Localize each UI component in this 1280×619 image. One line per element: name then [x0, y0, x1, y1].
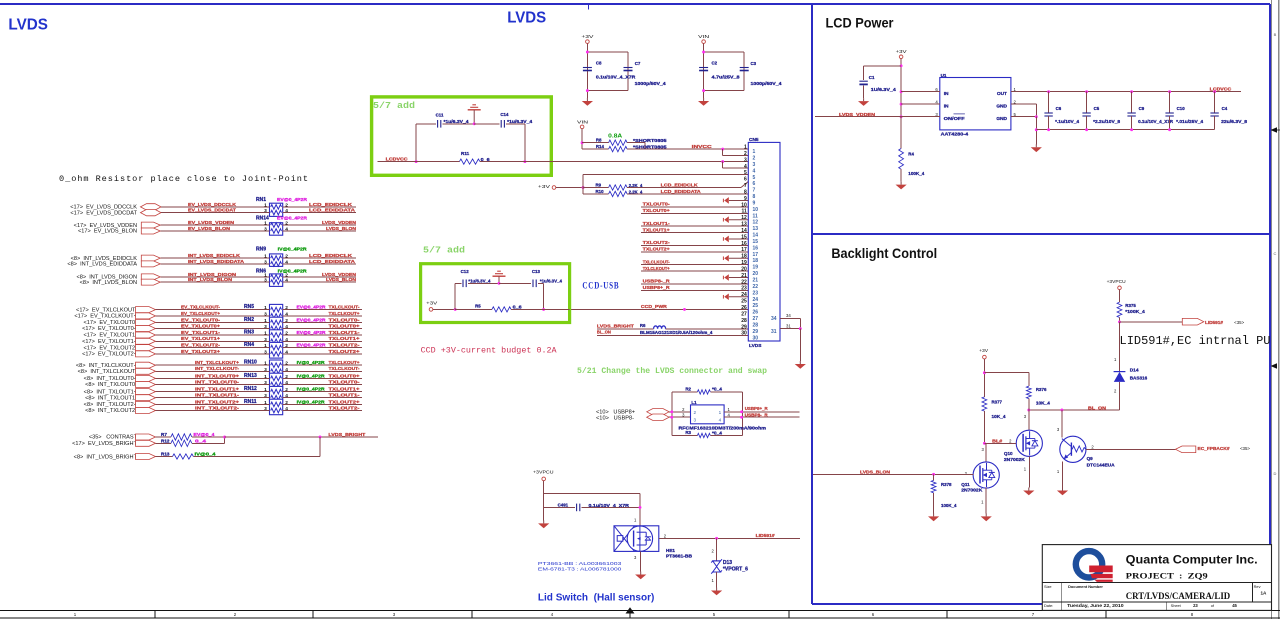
svg-text:EV_LVDS_DDCCLK: EV_LVDS_DDCCLK: [188, 202, 237, 207]
svg-text:<8> INT_TXLCLKOUT+: <8> INT_TXLCLKOUT+: [76, 363, 137, 369]
power +3V (U1): [896, 49, 907, 118]
svg-text:IN: IN: [944, 104, 949, 110]
svg-text:19: 19: [753, 265, 759, 271]
svg-text:<17> EV_TXLOUT2+: <17> EV_TXLOUT2+: [82, 352, 137, 358]
ground (Q10): [1023, 488, 1034, 496]
svg-text:2: 2: [694, 410, 697, 415]
svg-text:R10: R10: [596, 189, 605, 194]
power +3V (C8 group): [581, 34, 593, 98]
svg-text:EM-6781-T3 : AL006781000: EM-6781-T3 : AL006781000: [538, 566, 622, 572]
CN5 external pin numbers: [741, 145, 747, 337]
svg-text:+3V: +3V: [581, 34, 593, 39]
svg-text:BL#: BL#: [992, 438, 1003, 443]
wire to CN5 pin 5: [583, 174, 748, 176]
svg-text:+3VPCU: +3VPCU: [1107, 279, 1126, 284]
resistor R14: [582, 144, 667, 152]
annotation 5/7 add (top): [373, 100, 415, 111]
svg-text:*0_4: *0_4: [712, 430, 723, 435]
net LCDVCC rail to CN5: [377, 156, 748, 161]
svg-text:LCD_EDIDDATA: LCD_EDIDDATA: [309, 208, 356, 213]
wire EV_LVDS_DDCDAT to LCD_EDIDDATA: [70, 208, 356, 217]
svg-text:20: 20: [741, 266, 747, 272]
svg-text:23: 23: [1193, 603, 1198, 608]
svg-text:2: 2: [285, 331, 288, 337]
svg-text:100K_4: 100K_4: [908, 171, 925, 176]
ground (C1): [858, 98, 869, 106]
ground (D13): [711, 588, 722, 596]
svg-text:3: 3: [264, 393, 267, 399]
svg-text:LVDS_BRIGHT: LVDS_BRIGHT: [597, 323, 634, 328]
CN5 pin 31 wire to ground: [780, 324, 802, 361]
ground (green box 1): [468, 105, 481, 125]
svg-text:2: 2: [285, 387, 288, 393]
svg-text:<8> INT_LVDS_BRIGHT: <8> INT_LVDS_BRIGHT: [74, 454, 138, 460]
svg-text:RN1: RN1: [256, 197, 266, 203]
svg-text:20: 20: [753, 271, 759, 277]
svg-text:CCD_PWR: CCD_PWR: [641, 304, 668, 309]
annotation 5/7 add (CCD): [423, 245, 465, 256]
net LVDS_VDDEN: [815, 112, 940, 117]
svg-text:IV@0_4P2R: IV@0_4P2R: [297, 387, 326, 392]
svg-text:<17> EV_TXLOUT0+: <17> EV_TXLOUT0+: [82, 326, 137, 332]
title LCD Power: [826, 15, 894, 31]
ground (Q11): [981, 513, 992, 521]
net USBP8+_R: [724, 406, 800, 413]
title block text: [1044, 553, 1267, 609]
svg-text:<17> EV_LVDS_DDCDAT: <17> EV_LVDS_DDCDAT: [70, 210, 137, 216]
svg-text:3: 3: [264, 208, 267, 214]
svg-text:<8> INT_TXLOUT2-: <8> INT_TXLOUT2-: [85, 408, 137, 414]
svg-text:R5: R5: [475, 304, 481, 309]
svg-text:1: 1: [264, 400, 267, 406]
svg-text:INT_TXLOUT0-: INT_TXLOUT0-: [195, 379, 240, 384]
svg-text:EV_TXLCLKOUT-: EV_TXLCLKOUT-: [181, 305, 220, 310]
svg-text:TXLOUT0+: TXLOUT0+: [643, 208, 670, 213]
capacitor C491: [544, 503, 642, 512]
net LID591# output arrow: [1120, 318, 1245, 325]
svg-text:BL_ON: BL_ON: [1088, 405, 1107, 410]
svg-text:VIN: VIN: [577, 120, 588, 125]
svg-text:<8> INT_TXLOUT1+: <8> INT_TXLOUT1+: [84, 389, 137, 395]
svg-text:7: 7: [753, 188, 756, 194]
svg-text:TXLOUT0+: TXLOUT0+: [329, 373, 360, 378]
shield symbol at CN5 pin 12: [723, 216, 748, 223]
svg-text:TXLOUT1-: TXLOUT1-: [643, 221, 671, 226]
svg-text:EV@0_4P2R: EV@0_4P2R: [297, 330, 327, 335]
svg-text:C7: C7: [635, 61, 641, 66]
transistor Q9 DTC144EUA: [1057, 410, 1116, 488]
svg-text:18: 18: [753, 258, 759, 264]
svg-text:USBP8-_R: USBP8-_R: [745, 412, 769, 417]
right blue border of section boxes: [1269, 4, 1271, 604]
svg-text:TXLOUT0-: TXLOUT0-: [329, 379, 361, 384]
svg-text:6: 6: [744, 177, 747, 183]
svg-text:<17> EV_TXLOUT1+: <17> EV_TXLOUT1+: [82, 339, 137, 345]
svg-text:PT3661-BB : AL003661003: PT3661-BB : AL003661003: [538, 561, 622, 567]
ground (C491): [538, 520, 549, 528]
svg-text:27: 27: [741, 311, 747, 317]
svg-text:LVDS_VDDEN: LVDS_VDDEN: [322, 220, 357, 225]
svg-text:5: 5: [753, 175, 756, 181]
resistor R10: [583, 189, 643, 197]
svg-text:TXLOUT2+: TXLOUT2+: [643, 247, 670, 252]
svg-text:+3V: +3V: [426, 300, 437, 305]
svg-text:Date:: Date:: [1044, 603, 1053, 608]
svg-text:EV@0_4P2R: EV@0_4P2R: [297, 317, 327, 322]
wire C11 branch down: [415, 124, 418, 163]
svg-text:7: 7: [744, 183, 747, 189]
svg-text:EV_TXLCLKOUT+: EV_TXLCLKOUT+: [181, 311, 220, 316]
svg-text:R8: R8: [596, 137, 602, 142]
svg-text:Q10: Q10: [1004, 451, 1013, 456]
svg-text:22: 22: [741, 279, 747, 285]
svg-text:Document Number: Document Number: [1068, 584, 1103, 589]
capacitor C11: [416, 112, 474, 127]
net INVCC to CN5 pin 1: [627, 144, 748, 156]
svg-text:C9: C9: [1139, 106, 1145, 111]
net TXLCLKOUT+ to CN5 pin 20: [641, 266, 748, 271]
resistor R375: [1117, 302, 1145, 323]
svg-text:LVDS: LVDS: [8, 16, 48, 33]
svg-text:*.1u/10V_4: *.1u/10V_4: [1055, 119, 1080, 124]
svg-text:Lid Switch (Hall sensor): Lid Switch (Hall sensor): [538, 592, 655, 603]
svg-text:IV@0_4P2R: IV@0_4P2R: [297, 399, 326, 404]
svg-text:ON/OFF: ON/OFF: [944, 116, 965, 122]
power +3V (backlight): [979, 348, 1029, 397]
svg-text:Backlight Control: Backlight Control: [831, 245, 937, 261]
U1 GND pins to ground: [1011, 99, 1038, 144]
ground (R378): [928, 513, 939, 521]
svg-text:C3: C3: [751, 61, 757, 66]
ground (CCD box): [493, 271, 506, 285]
svg-text:4.7u/25V_8: 4.7u/25V_8: [712, 74, 741, 79]
svg-text:EV@0_4P2R: EV@0_4P2R: [277, 197, 308, 202]
svg-text:BLM15AG121SD1/0.5A/120ohm_4: BLM15AG121SD1/0.5A/120ohm_4: [640, 330, 713, 335]
wire EV_TXLOUT2+ to TXLOUT2+: [82, 349, 362, 358]
svg-text:16: 16: [753, 245, 759, 251]
vertical blue section divider: [811, 4, 813, 604]
annotation 0.8A: [608, 134, 623, 140]
svg-text:LID591#,EC intrnal PU: LID591#,EC intrnal PU: [1120, 335, 1271, 348]
svg-text:LID591#: LID591#: [1205, 320, 1223, 325]
svg-text:4: 4: [285, 311, 288, 317]
title Backlight Control: [831, 245, 937, 261]
svg-text:R375: R375: [1125, 303, 1136, 308]
bottom border scale band: [0, 607, 1280, 618]
svg-text:R13: R13: [161, 451, 170, 456]
resistor network RN2: [244, 317, 283, 333]
svg-text:24: 24: [741, 292, 747, 298]
svg-text:<8> INT_LVDS_EDIDDATA: <8> INT_LVDS_EDIDDATA: [67, 262, 137, 268]
svg-text:21: 21: [741, 273, 747, 279]
svg-text:INT_TXLOUT1+: INT_TXLOUT1+: [195, 387, 239, 392]
svg-text:3: 3: [264, 380, 267, 386]
net USBP8-_R: [724, 412, 800, 418]
svg-text:5/7 add: 5/7 add: [373, 100, 415, 111]
ground (U1): [1031, 144, 1042, 152]
net EC_FPBACK# output: [1086, 444, 1250, 452]
svg-text:CCD +3V-current budget 0.2A: CCD +3V-current budget 0.2A: [421, 345, 558, 355]
svg-text:*100K_4: *100K_4: [1125, 309, 1145, 314]
svg-text:IV@0_4P2R: IV@0_4P2R: [297, 360, 326, 365]
svg-text:Q9: Q9: [1087, 456, 1094, 461]
svg-text:30: 30: [741, 331, 747, 337]
node LVDS_BRIGHT: [223, 432, 378, 439]
svg-text:Size: Size: [1044, 584, 1052, 589]
capacitor C12: [454, 269, 499, 311]
resistor network RN10: [244, 360, 283, 376]
svg-text:3: 3: [753, 162, 756, 168]
svg-text:3: 3: [264, 259, 267, 265]
svg-text:4: 4: [285, 393, 288, 399]
net USBP8+_R to CN5 pin 23: [641, 285, 748, 290]
change-note green box (LCDVCC filter): [372, 97, 552, 175]
shield symbol at CN5 pin 21: [723, 274, 748, 281]
svg-text:+3V: +3V: [896, 49, 907, 54]
resistor network RN6: [256, 268, 307, 286]
svg-text:34: 34: [771, 316, 777, 322]
svg-text:LCD_EDIDDATA: LCD_EDIDDATA: [309, 259, 356, 264]
net TXLOUT2- to CN5 pin 16: [641, 240, 748, 245]
resistor network RN13: [244, 373, 283, 389]
note CCD current budget: [421, 345, 558, 355]
wire INT_TXLOUT2+ to TXLOUT2+: [84, 399, 362, 408]
resistor network RN14: [256, 215, 308, 235]
svg-text:<17> EV_TXLOUT0-: <17> EV_TXLOUT0-: [84, 320, 138, 326]
svg-text:PROJECT : ZQ9: PROJECT : ZQ9: [1126, 571, 1209, 581]
connector CN5 (LVDS): [748, 137, 780, 349]
sheet top border line: [0, 4, 1270, 10]
svg-text:29: 29: [741, 324, 747, 330]
svg-text:INT_TXLOUT1-: INT_TXLOUT1-: [195, 393, 240, 398]
svg-text:28: 28: [753, 322, 759, 328]
svg-text:3: 3: [264, 227, 267, 233]
svg-text:15: 15: [753, 239, 759, 245]
wire INT_LVDS_EDIDDATA to LCD_EDIDDATA: [67, 259, 356, 268]
svg-text:4: 4: [285, 367, 288, 373]
svg-text:INT_LVDS_EDIDDATA: INT_LVDS_EDIDDATA: [188, 259, 245, 264]
svg-text:INVCC: INVCC: [692, 144, 713, 149]
regulator U1 AAT4280-4: [940, 73, 1011, 136]
svg-text:R14: R14: [596, 144, 605, 149]
svg-text:4: 4: [285, 278, 288, 284]
node BL#: [983, 438, 1012, 444]
svg-text:0_4: 0_4: [195, 438, 207, 443]
svg-text:2N7002K: 2N7002K: [1004, 457, 1026, 462]
svg-text:<8> INT_TXLOUT0-: <8> INT_TXLOUT0-: [85, 382, 137, 388]
svg-text:2: 2: [285, 202, 288, 208]
svg-text:INT_LVDS_EDIDCLK: INT_LVDS_EDIDCLK: [188, 253, 241, 258]
svg-text:13: 13: [753, 226, 759, 232]
svg-text:BAS316: BAS316: [1130, 376, 1148, 381]
svg-text:R378: R378: [941, 482, 952, 487]
svg-text:LCD_EDIDCLK: LCD_EDIDCLK: [661, 183, 699, 188]
svg-text:USBP8-_R: USBP8-_R: [643, 279, 671, 284]
resistor R376: [1026, 373, 1050, 410]
svg-text:+3V: +3V: [979, 348, 988, 353]
svg-text:C13: C13: [532, 269, 541, 274]
svg-text:INT_TXLCLKOUT-: INT_TXLCLKOUT-: [195, 366, 240, 371]
svg-text:5: 5: [744, 170, 747, 176]
svg-text:2: 2: [285, 305, 288, 311]
svg-text:R6: R6: [640, 323, 646, 328]
ground (C8 group): [582, 98, 593, 106]
resistor R4: [899, 117, 925, 182]
svg-text:15: 15: [741, 234, 747, 240]
note PT3661-BB part numbers: [538, 561, 622, 573]
power +3V (CCD): [426, 300, 455, 311]
svg-text:INT_LVDS_BLON: INT_LVDS_BLON: [188, 277, 233, 282]
svg-text:1: 1: [744, 145, 747, 151]
svg-text:LCD_EDIDDATA: LCD_EDIDDATA: [661, 189, 702, 194]
wire EV_TXLOUT1+ to TXLOUT1+: [82, 336, 362, 345]
svg-text:31: 31: [771, 329, 777, 335]
net LCD_EDIDDATA to CN5: [627, 189, 748, 194]
svg-text:CCD-USB: CCD-USB: [582, 280, 619, 290]
wire EV_LVDS_DDCCLK to LCD_EDIDCLK: [70, 202, 356, 211]
svg-text:<17> EV_TXLCLKOUT-: <17> EV_TXLCLKOUT-: [76, 307, 137, 313]
svg-text:INT_TXLOUT0+: INT_TXLOUT0+: [195, 373, 239, 378]
svg-text:<10> USBP8-: <10> USBP8-: [596, 416, 634, 422]
svg-text:10: 10: [741, 202, 747, 208]
zener D13: [711, 538, 748, 587]
svg-text:26: 26: [753, 310, 759, 316]
svg-text:EV_TXLOUT2+: EV_TXLOUT2+: [181, 349, 220, 354]
svg-text:TXLCLKOUT+: TXLCLKOUT+: [643, 266, 670, 271]
svg-text:<35> CONTRAST: <35> CONTRAST: [89, 435, 138, 441]
HE1 pin 3 to ground: [634, 551, 641, 571]
svg-text:2: 2: [285, 272, 288, 278]
hall sensor HE1: [614, 518, 692, 559]
resistor R5: [455, 304, 569, 312]
net TXLOUT0- to CN5 pin 10: [641, 202, 748, 207]
svg-text:17: 17: [741, 247, 747, 253]
svg-text:25: 25: [753, 303, 759, 309]
svg-text:2: 2: [285, 254, 288, 260]
svg-text:1: 1: [264, 221, 267, 227]
power +3VPCU (hall): [533, 469, 554, 520]
net TXLOUT0+ to CN5 pin 11: [641, 208, 748, 213]
svg-text:EV_TXLOUT2-: EV_TXLOUT2-: [181, 343, 221, 348]
svg-text:14: 14: [741, 228, 747, 234]
label Lid Switch (Hall sensor): [538, 592, 655, 603]
svg-text:1: 1: [264, 305, 267, 311]
svg-text:D14: D14: [1130, 368, 1139, 374]
svg-text:1: 1: [264, 361, 267, 367]
resistor R377: [982, 397, 1006, 443]
svg-text:1000p/50V_4: 1000p/50V_4: [635, 81, 667, 86]
svg-text:16: 16: [741, 241, 747, 247]
wire INT_TXLOUT1- to TXLOUT1-: [85, 393, 362, 402]
wire INT_TXLOUT0- to TXLOUT0-: [85, 379, 362, 388]
svg-text:INT_TXLOUT2+: INT_TXLOUT2+: [195, 399, 239, 404]
svg-text:30: 30: [753, 335, 759, 341]
capacitor C14: [474, 112, 533, 128]
title LVDS top-center: [507, 9, 546, 26]
wire +3VPCU to HE1: [544, 494, 640, 526]
svg-text:IV@0_4P2R: IV@0_4P2R: [278, 247, 308, 252]
capacitor C3: [740, 61, 783, 86]
U1 pin wires left: [901, 87, 940, 117]
svg-text:C8: C8: [596, 61, 602, 66]
svg-text:C10: C10: [1177, 106, 1186, 111]
svg-text:GND: GND: [996, 104, 1007, 110]
capacitor C5: [1082, 90, 1120, 131]
svg-text:R9: R9: [596, 182, 602, 187]
svg-text:1: 1: [264, 272, 267, 278]
svg-text:TXLOUT1+: TXLOUT1+: [329, 387, 360, 392]
svg-text:3: 3: [694, 418, 697, 423]
svg-text:2: 2: [753, 156, 756, 162]
wire INT_LVDS_EDIDCLK to LCD_EDIDCLK: [71, 253, 356, 262]
svg-text:LCDVCC: LCDVCC: [386, 156, 409, 161]
resistor R8: [582, 137, 667, 149]
svg-text:8: 8: [744, 189, 747, 195]
net TXLOUT2+ to CN5 pin 17: [641, 247, 748, 252]
svg-text:TXLCLKOUT-: TXLCLKOUT-: [643, 259, 670, 264]
svg-text:INT_TXLCLKOUT+: INT_TXLCLKOUT+: [195, 360, 239, 365]
svg-text:IV@0_4P2R: IV@0_4P2R: [278, 268, 308, 273]
svg-text:100K_4: 100K_4: [941, 503, 957, 508]
resistor R11: [459, 151, 490, 164]
transistor Q10 2N7002K: [984, 410, 1042, 488]
title block frame: [1042, 545, 1271, 611]
svg-text:EV@0_4P2R: EV@0_4P2R: [277, 215, 308, 220]
svg-text:2: 2: [285, 374, 288, 380]
svg-text:3: 3: [264, 406, 267, 412]
capacitor C10: [1165, 90, 1203, 131]
net LCD_EDIDCLK to CN5: [627, 182, 748, 188]
svg-text:Quanta Computer Inc.: Quanta Computer Inc.: [1126, 553, 1258, 567]
CN5 pin 34 wire: [780, 313, 800, 328]
svg-text:C5: C5: [1094, 106, 1100, 111]
svg-text:3: 3: [264, 337, 267, 343]
svg-text:TXLCLKOUT+: TXLCLKOUT+: [329, 311, 360, 316]
svg-text:R12: R12: [161, 438, 170, 443]
svg-text:<17> EV_LVDS_BLON: <17> EV_LVDS_BLON: [78, 229, 137, 235]
svg-text:6: 6: [753, 181, 756, 187]
net USBP8-_R to CN5 pin 22: [641, 279, 748, 284]
capacitor C13: [499, 269, 563, 311]
shield symbol at CN5 pin 9: [723, 197, 748, 204]
svg-text:19: 19: [741, 260, 747, 266]
svg-text:1: 1: [719, 410, 722, 415]
svg-text:1000p/50V_4: 1000p/50V_4: [751, 81, 783, 86]
svg-text:BL_ON: BL_ON: [597, 330, 612, 335]
svg-text:Sheet: Sheet: [1171, 603, 1182, 608]
svg-text:1: 1: [753, 149, 756, 155]
net TXLOUT1+ to CN5 pin 14: [641, 227, 748, 232]
net TXLOUT1- to CN5 pin 13: [641, 221, 748, 226]
svg-text:34: 34: [786, 313, 791, 318]
svg-text:8: 8: [753, 194, 756, 200]
svg-text:USBP8+_R: USBP8+_R: [643, 285, 671, 290]
wire EV_TXLOUT2- to TXLOUT2-: [84, 343, 362, 352]
svg-text:24: 24: [753, 297, 759, 303]
shield symbol at CN5 pin 15: [723, 236, 748, 243]
svg-text:TXLCLKOUT-: TXLCLKOUT-: [329, 305, 360, 310]
svg-text:C6: C6: [1056, 106, 1062, 111]
svg-text:C11: C11: [436, 112, 444, 117]
svg-text:TXLOUT2+: TXLOUT2+: [329, 399, 360, 404]
svg-text:C14: C14: [500, 112, 509, 117]
resistor network RN3: [244, 330, 283, 346]
svg-text:LVDS_BLON: LVDS_BLON: [326, 277, 357, 282]
svg-text:11: 11: [742, 209, 748, 215]
svg-text:3: 3: [264, 278, 267, 284]
svg-text:4: 4: [285, 406, 288, 412]
svg-text:14: 14: [753, 233, 759, 239]
